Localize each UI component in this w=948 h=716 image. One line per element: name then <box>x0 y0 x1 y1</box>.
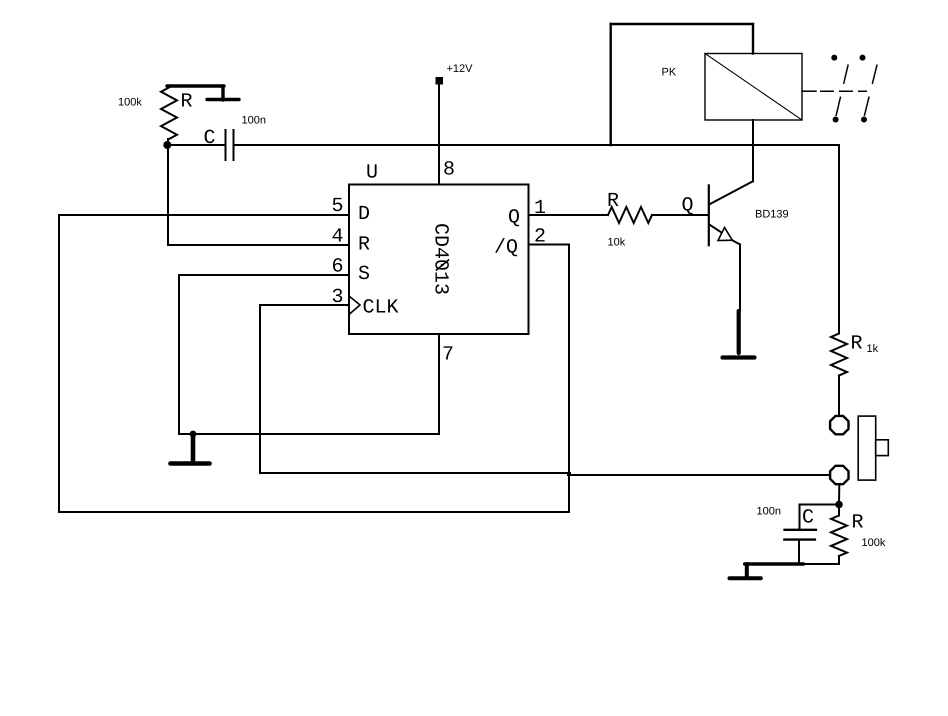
transistor base bar <box>708 185 710 245</box>
svg-text:C: C <box>802 507 814 530</box>
wire relay actuator dashed linkage <box>802 90 816 92</box>
node junction bottom right <box>835 501 843 509</box>
svg-text:1k: 1k <box>867 343 879 355</box>
wire pin 7 <box>438 334 440 434</box>
svg-text:10k: 10k <box>608 237 626 249</box>
wire D net outer loop <box>59 214 349 216</box>
relay contact lever 2 <box>864 55 879 116</box>
wire S net <box>179 274 349 276</box>
svg-text:100k: 100k <box>118 97 142 109</box>
relay contact lever 1 <box>836 59 850 116</box>
svg-text:R: R <box>607 190 619 213</box>
ground bottom right <box>730 564 761 578</box>
wire junction to capacitor C1 <box>167 144 225 146</box>
svg-text:PK: PK <box>662 67 677 79</box>
node +12V terminal <box>436 77 444 85</box>
wire button to junction <box>838 485 840 505</box>
push button body <box>858 416 876 480</box>
transistor emitter <box>710 225 722 233</box>
svg-text:R: R <box>181 91 193 114</box>
svg-text:+12V: +12V <box>447 63 474 75</box>
svg-text:R: R <box>852 512 864 535</box>
wire pin1 Q to base resistor <box>529 214 609 216</box>
wire junction to capacitor C2 <box>800 504 840 506</box>
svg-text:Q: Q <box>508 207 520 230</box>
capacitor C1 100n <box>225 130 227 160</box>
ground switch symbol top-left <box>167 86 239 100</box>
svg-text:1: 1 <box>534 197 546 220</box>
resistor R 100k top-left <box>161 88 177 140</box>
wire relay coil bottom to collector <box>752 120 754 182</box>
wire R1k to button <box>838 376 840 417</box>
node junction S ground <box>190 431 197 438</box>
svg-text:R: R <box>851 333 863 356</box>
wire CLK net <box>260 304 349 306</box>
svg-text:100n: 100n <box>242 115 266 127</box>
svg-text:100k: 100k <box>862 537 886 549</box>
svg-text:D: D <box>358 203 370 226</box>
clock triangle pin 3 <box>349 296 360 315</box>
wire resistor to base <box>652 214 708 216</box>
transistor collector <box>710 182 753 205</box>
svg-text:S: S <box>358 263 370 286</box>
svg-text:CLK: CLK <box>363 297 399 320</box>
node junction R/C <box>163 141 171 149</box>
capacitor C2 100n <box>785 529 816 531</box>
wire emitter down <box>739 245 741 311</box>
svg-text:/Q: /Q <box>494 237 518 260</box>
resistor R 100k bottom right <box>831 516 847 557</box>
svg-text:BD139: BD139 <box>755 209 789 221</box>
push button S1 bottom contact <box>830 466 848 484</box>
wire right vertical down to R 1k <box>838 145 840 334</box>
push button S1 top contact <box>830 416 848 434</box>
svg-text:8: 8 <box>443 159 455 182</box>
svg-text:U: U <box>366 162 378 185</box>
ground S net <box>171 435 210 464</box>
resistor R 10k <box>608 207 652 223</box>
IC U CD4013 dual D flip-flop <box>349 185 529 335</box>
relay contact dots <box>831 55 837 61</box>
resistor R 1k <box>831 334 847 376</box>
relay PK coil box <box>705 54 802 121</box>
wire +12V to pin 8 <box>438 84 440 185</box>
wire bottom RC to ground <box>745 562 804 565</box>
svg-text:C: C <box>204 127 216 150</box>
wire net y144 long horizontal <box>234 144 840 146</box>
svg-text:CD4013: CD4013 <box>429 223 452 295</box>
wire R net <box>168 244 349 246</box>
wire relay loop <box>611 24 753 145</box>
svg-text:100n: 100n <box>757 506 781 518</box>
svg-text:R: R <box>358 234 370 257</box>
svg-text:Q: Q <box>682 195 694 218</box>
ground emitter <box>723 311 755 358</box>
svg-text:7: 7 <box>442 344 454 367</box>
